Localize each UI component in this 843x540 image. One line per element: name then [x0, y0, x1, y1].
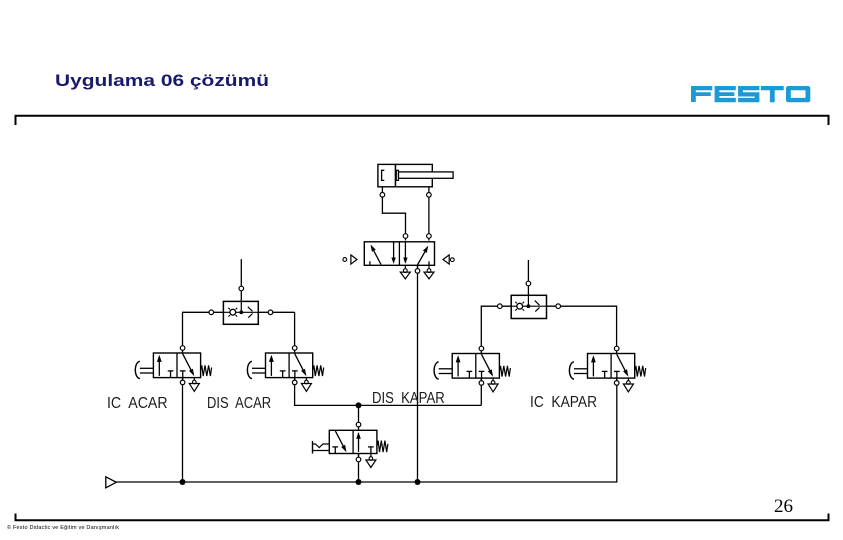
cylinder A (double-acting)	[378, 164, 453, 186]
footer rule	[0, 505, 843, 535]
shuttle valve SV1	[223, 301, 258, 324]
page number 26	[774, 496, 793, 518]
valve IC ACAR 3/2 push button	[135, 346, 211, 392]
label IC KAPAR	[530, 394, 597, 412]
cylinder port circles	[380, 193, 385, 198]
title	[55, 71, 269, 91]
wire valve V1 port1 to supply rail	[417, 266, 419, 482]
valve IC KAPAR 3/2 push button	[569, 346, 645, 392]
junction dots	[180, 479, 186, 485]
wire IC ACAR port2 to shuttle SV1 left	[183, 312, 295, 353]
wire DIS KAPAR port1 to node A	[480, 379, 482, 406]
wire IC KAPAR port2 to shuttle SV2 right	[547, 306, 617, 353]
wire roller valve V2 port2 to node A	[358, 405, 360, 430]
valve V1 5/2 double pilot	[343, 234, 454, 279]
wire DIS KAPAR port2 to shuttle SV2 left	[481, 306, 511, 353]
compressed air supply source	[106, 477, 117, 488]
wire IC ACAR port1 to supply rail	[182, 378, 184, 482]
wire shuttle SV2 output pilot line	[527, 260, 529, 295]
label DIS ACAR	[207, 395, 271, 413]
wire cylinder portA to valve V1 port4	[382, 187, 405, 241]
copyright	[7, 525, 119, 531]
valve DIS KAPAR 3/2 push button	[434, 346, 510, 392]
wire roller valve V2 port1 to supply rail	[358, 454, 360, 483]
wire supply rail	[116, 378, 617, 482]
valve DIS ACAR 3/2 push button	[247, 346, 323, 392]
wire cylinder portB to valve V1 port2	[428, 187, 430, 241]
shuttle SV2 port circles	[498, 304, 503, 309]
wire DIS ACAR port1 to node A	[295, 378, 482, 405]
FESTO logo	[690, 85, 816, 103]
shuttle SV1 port circles	[209, 310, 214, 315]
header rule	[0, 105, 843, 135]
label IC ACAR	[107, 395, 168, 413]
label DIS KAPAR	[372, 390, 445, 408]
wire shuttle SV1 output pilot line	[240, 259, 242, 301]
shuttle valve SV2	[511, 295, 546, 318]
valve V2 3/2 plunger normally-open	[313, 422, 388, 467]
wire DIS ACAR port2 to shuttle SV1 right	[294, 312, 296, 353]
